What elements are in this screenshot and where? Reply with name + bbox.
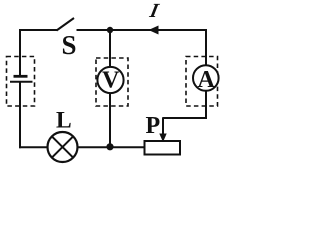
lamp X diagonal 1	[52, 136, 73, 157]
svg-text:A: A	[198, 67, 216, 93]
rheostat P body	[145, 141, 181, 155]
svg-text:L: L	[56, 108, 72, 134]
wire voltmeter top lead	[109, 30, 111, 68]
wire ammeter top lead	[205, 29, 207, 66]
wire bottom-middle horizontal	[77, 146, 145, 148]
wire left vertical lower	[19, 82, 21, 148]
svg-text:S: S	[62, 30, 77, 60]
voltmeter U-V circle	[97, 67, 123, 93]
wire rheostat wiper vertical	[162, 118, 164, 136]
battery dashed box	[7, 57, 35, 107]
wire rheostat horizontal link	[163, 117, 208, 119]
wire bottom-left horizontal	[19, 146, 48, 148]
wire voltmeter bottom lead	[109, 93, 111, 147]
voltmeter dashed box	[96, 58, 128, 106]
lamp L circle	[48, 132, 78, 162]
ammeter dashed box	[186, 57, 218, 107]
wire ammeter bottom lead	[205, 91, 207, 120]
node junction bottom (voltmeter tap)	[106, 143, 113, 150]
svg-text:P: P	[146, 113, 161, 139]
node junction top (voltmeter tap)	[107, 27, 113, 33]
lamp X diagonal 2	[52, 136, 73, 157]
wire top-left horizontal	[20, 29, 57, 31]
wire top-right horizontal	[77, 29, 207, 31]
ammeter U-A circle	[193, 65, 219, 91]
switch S blade	[57, 18, 75, 31]
rheostat wiper arrowhead	[159, 134, 166, 143]
battery long plate	[10, 81, 33, 83]
svg-text:V: V	[102, 68, 120, 94]
current arrow on top wire	[149, 26, 159, 35]
battery short thick plate	[14, 75, 28, 78]
wire left vertical upper	[19, 29, 21, 76]
